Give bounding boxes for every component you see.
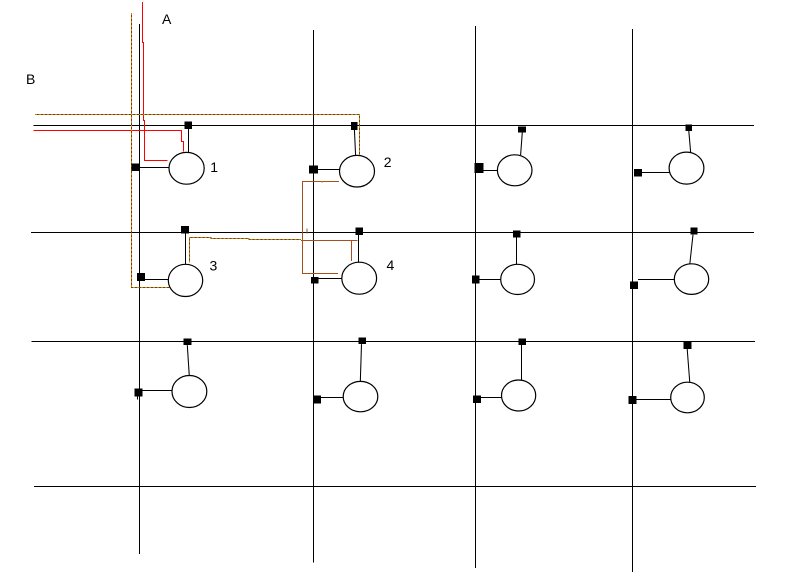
svg-text:1: 1 <box>210 159 218 175</box>
svg-text:B: B <box>26 71 35 87</box>
svg-text:2: 2 <box>384 154 392 170</box>
svg-text:4: 4 <box>387 257 395 273</box>
svg-text:A: A <box>162 11 172 27</box>
svg-text:3: 3 <box>210 258 218 274</box>
